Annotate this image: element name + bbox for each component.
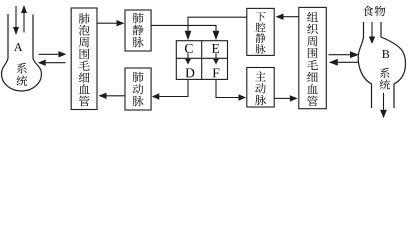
arrow: alveolar capillaries to A	[38, 60, 66, 66]
connector: vena cava to C	[185, 17, 247, 40]
label text: A xi-tong (system)	[17, 63, 28, 86]
box: feipao zhouwei maoxixueguan (alveolar capillaries)	[71, 8, 97, 110]
arrow: aorta to tissue capillaries	[274, 95, 298, 101]
arrow: C to D valve flow	[185, 53, 191, 64]
letter: A	[14, 43, 22, 51]
arrow: A to alveolar capillaries	[39, 51, 67, 57]
arrow: tissue capillaries to B	[329, 51, 360, 58]
box: feijingmai (pulmonary vein)	[125, 10, 151, 51]
flask: A system (lung/alveoli sac) outline	[2, 14, 42, 91]
letter: D (right ventricle)	[186, 68, 195, 77]
heart vertical divider	[201, 41, 203, 80]
box: xiaqiangjingmai (inferior vena cava)	[247, 8, 274, 55]
arrow: tissue capillaries to vena cava	[276, 14, 299, 20]
arrow: waste out of B	[380, 93, 387, 118]
arrow: capillaries to pulmonary vein	[97, 20, 125, 26]
label text: inferior vena cava	[256, 12, 266, 54]
letter: E (left atrium)	[212, 44, 219, 53]
label text: pulmonary vein	[133, 13, 144, 48]
arrow: food down into B	[369, 22, 375, 44]
heart horizontal divider	[176, 57, 227, 59]
arrow: air out (up from A)	[21, 5, 27, 33]
letter: B	[382, 50, 389, 58]
box: zuzhi zhouwei maoxixueguan (tissue capillaries)	[299, 7, 327, 108]
letter: F (left ventricle)	[213, 68, 220, 77]
arrow: air in (down into A)	[13, 6, 19, 35]
box: heart outline	[176, 41, 227, 80]
arrow: B to tissue capillaries	[329, 59, 358, 66]
arrow: pulmonary artery to capillaries	[99, 93, 125, 99]
connector: D to pulmonary artery	[152, 79, 188, 99]
flask: B system (digestive tract) outline left wall	[358, 22, 371, 108]
label text: pulmonary artery	[133, 72, 144, 107]
connector: pulmonary vein to E	[151, 25, 219, 40]
label text: shiwu (food)	[363, 6, 386, 17]
flask: B system outline right wall	[381, 22, 406, 108]
letter: C (right atrium)	[185, 44, 193, 53]
box: zhudongmai (aorta)	[247, 68, 274, 108]
box: feidongmai (pulmonary artery)	[125, 68, 151, 110]
label text: aorta	[255, 71, 266, 105]
connector: F to aorta	[216, 79, 246, 100]
label text: tissue capillaries	[307, 12, 318, 107]
arrow: E to F valve flow	[213, 53, 219, 64]
label text: alveolar capillaries	[79, 13, 90, 106]
label text: B xi-tong (system)	[380, 68, 390, 90]
